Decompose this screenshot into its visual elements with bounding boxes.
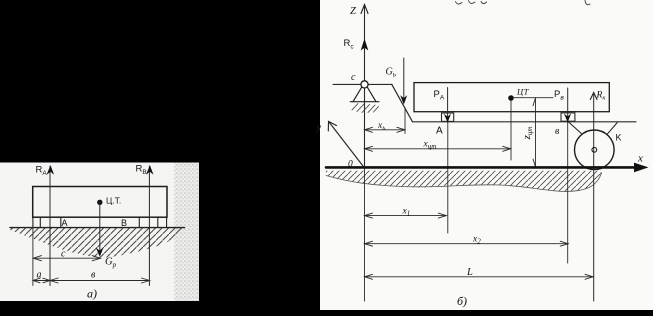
dimension c [33, 256, 100, 261]
z_цт dimension vertical [533, 98, 536, 167]
fork right [607, 123, 617, 135]
force P_B line [567, 88, 569, 121]
svg-text:0: 0 [348, 160, 353, 170]
lower frame line [413, 121, 636, 123]
force P_A line [447, 88, 449, 122]
svg-text:в: в [91, 270, 96, 281]
svg-text:в: в [555, 126, 560, 137]
support box B [561, 113, 575, 121]
ground hatch a [11, 228, 185, 258]
support box A [442, 113, 454, 121]
hatch bottom wavy boundary [326, 173, 602, 191]
remnant text top [456, 1, 591, 5]
svg-text:Z: Z [350, 6, 356, 17]
platform rectangle [414, 83, 609, 112]
white scan region b) [320, 0, 653, 310]
ground line a [10, 227, 185, 229]
dimension x_цт [365, 146, 511, 151]
noise strip right of a) [174, 163, 199, 302]
svg-text:c: c [351, 72, 356, 83]
CG dot b [508, 95, 514, 101]
ground hatch b [326, 171, 602, 192]
R_A arrowhead [47, 165, 55, 175]
P_A arrowhead [444, 114, 451, 123]
svg-text:K: K [616, 133, 622, 143]
weight G_p line [99, 202, 101, 254]
svg-text:ЦТ: ЦТ [516, 87, 530, 97]
Z axis line [364, 5, 366, 168]
R_K arrowhead [590, 93, 597, 100]
svg-text:а): а) [87, 287, 97, 301]
support triangle [353, 88, 376, 102]
svg-text:a: a [37, 270, 42, 281]
P_B arrowhead [564, 114, 571, 123]
svg-text:y: y [316, 123, 322, 134]
force R_c arrowhead (filled) [361, 39, 369, 51]
force R_K line + extension [593, 93, 595, 301]
y arrowhead [328, 121, 336, 131]
svg-text:A: A [62, 218, 68, 228]
extension line left beam edge [32, 228, 34, 286]
CG vertical extension [510, 101, 512, 160]
drawbar diagonal [392, 84, 413, 121]
svg-text:L: L [466, 267, 473, 278]
x axis thick line [326, 166, 637, 169]
fork left [569, 122, 582, 134]
wheel hub [592, 147, 597, 152]
drawbar horizontal line [333, 83, 392, 85]
beam a [33, 187, 167, 218]
svg-text:A: A [436, 126, 443, 137]
center of gravity dot a [97, 200, 102, 205]
force R_B line [148, 166, 150, 286]
support hatch [352, 104, 379, 113]
extension at 405 [404, 108, 406, 134]
dimension a [33, 278, 50, 283]
svg-text:B: B [121, 218, 127, 228]
svg-text:x: x [637, 153, 643, 165]
dimension L [365, 274, 594, 279]
svg-text:c: c [61, 249, 66, 260]
G_p arrowhead [96, 248, 104, 257]
dimension в [50, 278, 150, 283]
support base line [350, 101, 379, 103]
y axis [329, 122, 363, 166]
svg-text:Ц.Т.: Ц.Т. [106, 196, 121, 206]
CG underline [513, 97, 553, 99]
feet strokes under beam [33, 218, 167, 228]
Z axis extension below ground [364, 168, 366, 302]
force G_ь line [403, 58, 405, 102]
dimension x_ь [365, 127, 405, 132]
extension below B [567, 122, 569, 263]
x axis arrowhead [634, 163, 649, 173]
white scan region a) [0, 163, 199, 302]
svg-text:б): б) [457, 294, 467, 308]
pin circle [361, 81, 368, 88]
force R_A line [49, 166, 51, 286]
wheel K [575, 130, 615, 170]
extension below A [447, 123, 449, 234]
dimension x_1 [365, 213, 447, 218]
dimension x_2 [365, 241, 569, 246]
R_B arrowhead [146, 165, 154, 175]
G_ь arrowhead [400, 95, 407, 104]
Z arrowhead [361, 5, 368, 14]
